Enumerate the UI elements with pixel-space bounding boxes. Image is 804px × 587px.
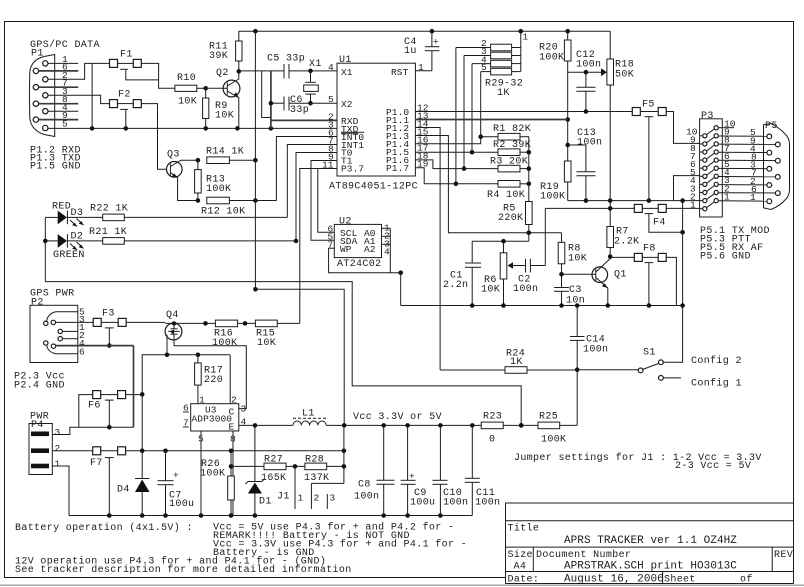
svg-text:1: 1 — [418, 62, 424, 73]
wire P2.4 GND row to column — [56, 346, 134, 428]
wires P3 to P5 — [718, 128, 775, 201]
svg-text:F8: F8 — [643, 244, 656, 255]
wire RST to C4 — [415, 70, 432, 72]
resistor R11 — [209, 31, 242, 73]
resistor R12 — [201, 197, 276, 217]
crystal X1 — [304, 59, 322, 105]
P2 signal legend — [14, 372, 65, 392]
wire Q2 collector to U1 RXD — [262, 71, 337, 128]
capacitor C14 — [570, 306, 608, 426]
svg-text:F4: F4 — [653, 218, 666, 229]
wire P4.3 row — [52, 425, 133, 435]
svg-text:C: C — [229, 407, 235, 418]
resistor R21 — [89, 227, 298, 244]
wire GND row y200 to P3 — [568, 198, 700, 203]
potentiometer R6 — [481, 241, 513, 305]
capacitor C7 — [158, 451, 195, 516]
svg-text:APRSTRAK.SCH print HO3013C: APRSTRAK.SCH print HO3013C — [564, 561, 737, 573]
capacitor C5 — [239, 54, 337, 79]
svg-text:of: of — [740, 574, 753, 586]
svg-text:A4: A4 — [514, 562, 527, 573]
resistor R13 — [195, 160, 232, 200]
wire P1.2 to R24 — [415, 128, 440, 371]
svg-text:R4 10K: R4 10K — [487, 190, 525, 201]
svg-text:100K: 100K — [541, 435, 566, 446]
svg-text:P4: P4 — [31, 420, 44, 431]
resistor R8 — [558, 233, 587, 277]
wire INT0 to R12 row — [276, 137, 337, 201]
svg-text:+: + — [433, 37, 439, 48]
svg-text:F2: F2 — [118, 90, 131, 101]
svg-text:P2: P2 — [31, 298, 44, 309]
svg-text:U1: U1 — [339, 55, 352, 66]
capacitor C12 — [576, 50, 601, 112]
wire P1.1 row — [415, 119, 567, 121]
svg-text:3: 3 — [330, 493, 336, 504]
svg-text:P1: P1 — [31, 49, 44, 60]
svg-text:See tracker description for mo: See tracker description for more detaile… — [15, 564, 352, 576]
svg-text:Config 1: Config 1 — [691, 378, 742, 390]
svg-text:Title: Title — [508, 523, 540, 535]
svg-text:2-3 Vcc = 5V: 2-3 Vcc = 5V — [675, 461, 751, 472]
svg-text:100u: 100u — [410, 498, 435, 509]
svg-text:1: 1 — [199, 395, 205, 406]
svg-text:100K: 100K — [539, 53, 564, 64]
wire bottom ground rail — [69, 513, 472, 518]
svg-text:Q4: Q4 — [166, 310, 179, 321]
wire feedback row R27 R28 — [231, 464, 346, 469]
diode D1 zener — [246, 425, 272, 515]
capacitor C1 — [443, 241, 481, 305]
capacitor C9 — [401, 425, 436, 515]
svg-text:F1: F1 — [120, 50, 133, 61]
wire T0 to D2 row — [296, 153, 337, 241]
wire F1 out to R10 — [141, 63, 175, 88]
wire P1.2 RXD to F1 — [48, 63, 110, 79]
P3 contacts — [700, 126, 719, 211]
wire F5 out to P3 — [666, 112, 699, 144]
svg-text:100n: 100n — [576, 60, 601, 71]
diode D4 — [117, 394, 150, 515]
svg-text:GREEN: GREEN — [53, 250, 85, 261]
capacitor C8 — [354, 425, 395, 515]
transistor Q1 — [562, 257, 627, 306]
ferrite F4 — [545, 204, 699, 234]
wire INT1 to D3 row — [287, 145, 337, 218]
wire P1 pin stubs — [39, 63, 79, 119]
svg-text:1: 1 — [690, 200, 696, 211]
svg-text:P1.5 GND: P1.5 GND — [30, 162, 81, 173]
svg-text:100K: 100K — [540, 192, 565, 203]
svg-text:100n: 100n — [443, 498, 468, 509]
ferrite F6 — [79, 391, 145, 428]
svg-text:1: 1 — [750, 192, 756, 203]
svg-text:0: 0 — [489, 435, 495, 446]
resistor network R29-32 — [456, 31, 529, 99]
svg-text:39K: 39K — [209, 51, 228, 62]
svg-text:R23: R23 — [483, 412, 502, 423]
svg-text:RED: RED — [52, 202, 71, 213]
svg-text:1: 1 — [55, 459, 61, 470]
wire Vcc output row — [246, 423, 481, 428]
note text jumper settings — [514, 452, 762, 472]
svg-text:100n: 100n — [354, 492, 379, 503]
svg-text:100u: 100u — [169, 499, 194, 510]
svg-text:ADP3000: ADP3000 — [192, 414, 233, 425]
resistor R16 — [203, 320, 255, 349]
svg-text:4: 4 — [384, 247, 390, 258]
connector P5 (DB9) — [764, 121, 790, 210]
svg-text:C8: C8 — [358, 480, 371, 491]
wire U2 WP and right pins to ground — [329, 228, 403, 305]
connector P4 PWR — [29, 412, 61, 475]
svg-text:P3: P3 — [701, 111, 714, 122]
capacitor C10 — [433, 425, 469, 515]
wire U3 pins 5 8 to ground rail — [199, 431, 233, 518]
connector P1 (DB9 GPS/PC DATA) — [29, 39, 99, 137]
svg-text:1u: 1u — [404, 46, 417, 57]
LED D2 green — [45, 232, 102, 262]
svg-text:2: 2 — [55, 443, 61, 454]
svg-text:Q2: Q2 — [216, 68, 229, 79]
wire gate row to R17/U3 pin2 — [142, 353, 230, 404]
switch S1 — [577, 306, 682, 381]
svg-text:Size: Size — [508, 549, 533, 561]
resistor R22 — [90, 204, 287, 221]
IC U3 ADP3000 — [191, 404, 239, 433]
resistor R1 — [481, 124, 531, 140]
P5 wire pin numbers — [750, 127, 757, 203]
resistor R19 — [540, 161, 571, 203]
P3 right pin numbers — [724, 119, 736, 203]
jumper J1 — [277, 425, 344, 509]
svg-text:F7: F7 — [90, 458, 103, 469]
svg-text:R12 10K: R12 10K — [201, 207, 245, 218]
svg-text:Q1: Q1 — [614, 270, 627, 281]
wire P4.1 to ground rail — [52, 466, 69, 516]
svg-text:2.2n: 2.2n — [443, 280, 468, 291]
note text battery operation — [15, 522, 467, 577]
ferrite F8 — [610, 244, 676, 306]
wire P1.0 row to C12/F5 — [415, 111, 632, 113]
svg-text:J1: J1 — [277, 492, 290, 503]
LED D3 red — [45, 202, 102, 227]
wire P1.7 to R4 — [415, 168, 498, 184]
svg-text:P5.6 GND: P5.6 GND — [700, 252, 751, 263]
svg-text:S1: S1 — [643, 348, 656, 359]
wire P3.7 riser to R15 — [300, 169, 337, 324]
capacitor C4 — [404, 31, 439, 70]
svg-text:100K: 100K — [212, 338, 237, 349]
resistor R9 — [203, 88, 234, 128]
resistor R4 — [487, 181, 531, 202]
svg-text:C3: C3 — [569, 285, 582, 296]
P5 signal legend — [700, 226, 770, 263]
resistor R20 — [539, 31, 571, 63]
wire ground column 683 — [682, 201, 684, 306]
resistor R27 — [261, 455, 286, 485]
ferrite F5 — [632, 100, 666, 201]
wire GND to P3 row5 — [674, 176, 700, 201]
svg-text:2: 2 — [231, 395, 237, 406]
svg-text:RST: RST — [391, 67, 409, 78]
svg-text:6: 6 — [183, 403, 189, 414]
svg-text:X1: X1 — [341, 67, 353, 78]
wire pack risers to R1-R4 — [454, 48, 483, 187]
svg-text:Q3: Q3 — [167, 150, 180, 161]
svg-text:100n: 100n — [577, 138, 602, 149]
resistor R17 — [195, 355, 223, 404]
svg-text:Config 2: Config 2 — [691, 355, 742, 367]
ferrite F1 — [110, 50, 159, 80]
svg-text:D1: D1 — [259, 497, 272, 508]
resistor R28 — [304, 455, 329, 485]
U1 right pin numbers — [417, 62, 429, 169]
svg-text:APRS TRACKER ver 1.1 OZ4HZ: APRS TRACKER ver 1.1 OZ4HZ — [564, 535, 737, 547]
potentiometer R18 — [601, 31, 634, 200]
P2 pin numbers — [79, 307, 85, 358]
svg-text:3: 3 — [241, 404, 247, 415]
svg-text:100n: 100n — [475, 498, 500, 509]
P1 signal legend — [30, 146, 81, 173]
svg-text:2: 2 — [314, 493, 320, 504]
capacitor C6 — [271, 95, 337, 116]
svg-text:F3: F3 — [102, 309, 115, 320]
svg-text:R25: R25 — [539, 412, 558, 423]
svg-text:REV: REV — [774, 550, 793, 561]
svg-text:4: 4 — [328, 62, 334, 73]
wire P1.4 to R1 — [415, 137, 480, 144]
svg-text:C5 33p: C5 33p — [267, 54, 305, 65]
capacitor C11 — [465, 425, 501, 515]
svg-text:R14 1K: R14 1K — [206, 147, 244, 158]
resistor R3 — [490, 157, 531, 172]
transistor Q4 (P-MOSFET) — [165, 310, 206, 357]
IC U2 AT24C02 — [334, 217, 381, 271]
svg-text:Sheet: Sheet — [664, 574, 696, 586]
wire GND row P1.5 to U1 TXD — [48, 126, 337, 131]
svg-text:5: 5 — [328, 94, 334, 105]
resistor R14 — [206, 147, 258, 164]
svg-text:X2: X2 — [341, 99, 353, 110]
svg-text:1: 1 — [298, 493, 304, 504]
svg-text:3: 3 — [55, 427, 61, 438]
capacitor C3 — [554, 274, 585, 306]
U2 pin numbers — [328, 223, 391, 258]
resistor R7 — [607, 201, 640, 259]
resistor R10 — [175, 73, 208, 108]
svg-text:6: 6 — [79, 347, 85, 358]
wire U3 pin4 to Vcc row — [239, 424, 246, 426]
P3 left pin numbers — [686, 127, 698, 211]
svg-text:P3.7: P3.7 — [341, 164, 364, 175]
wire R20/C12/R18 wiper net — [565, 61, 602, 161]
svg-text:F5: F5 — [642, 100, 655, 111]
wire P1.6 to R3 — [415, 160, 498, 169]
wire F2 out to Q3 base — [141, 104, 170, 170]
wire C1/R6 row — [472, 239, 529, 244]
svg-text:August 16, 2006: August 16, 2006 — [564, 574, 664, 586]
resistor R15 — [255, 320, 299, 349]
svg-text:100n: 100n — [513, 284, 538, 295]
wire P4.2 row through F7 — [52, 450, 92, 452]
svg-text:165K: 165K — [261, 473, 286, 484]
wire Q4 drain to U3 pin3 — [174, 346, 246, 409]
svg-text:220: 220 — [204, 375, 223, 386]
svg-text:137K: 137K — [304, 473, 329, 484]
svg-text:P2.4 GND: P2.4 GND — [14, 381, 65, 392]
svg-text:E: E — [229, 422, 235, 433]
wire LED anode column to Vcc — [43, 217, 524, 427]
svg-text:10K: 10K — [481, 285, 500, 296]
svg-text:100K: 100K — [206, 184, 231, 195]
svg-text:P1.7: P1.7 — [386, 163, 409, 174]
svg-text:1: 1 — [523, 32, 529, 43]
resistor R2 — [493, 140, 531, 156]
resistor R24 — [440, 349, 577, 374]
transistor Q3 — [167, 150, 201, 203]
svg-text:Date:: Date: — [508, 575, 540, 586]
svg-text:220K: 220K — [498, 213, 523, 224]
svg-text:WP: WP — [340, 244, 352, 255]
title block — [506, 503, 794, 586]
svg-text:Vcc 3.3V or 5V: Vcc 3.3V or 5V — [353, 412, 442, 423]
ferrite F3 — [93, 309, 165, 348]
svg-text:D4: D4 — [117, 485, 130, 496]
wire P1.5 to R2 — [415, 151, 498, 153]
svg-text:R21 1K: R21 1K — [89, 227, 127, 238]
svg-text:U2: U2 — [339, 217, 352, 228]
ferrite F7 — [90, 447, 346, 516]
wire P1.3 riser and row to R5/R8 — [415, 136, 561, 236]
resistor R5 — [498, 137, 532, 242]
svg-text:AT89C4051-12PC: AT89C4051-12PC — [329, 182, 418, 193]
svg-text:10K: 10K — [257, 338, 276, 349]
svg-text:A2: A2 — [364, 244, 376, 255]
svg-text:10K: 10K — [178, 97, 197, 108]
capacitor C13 — [568, 128, 603, 201]
svg-text:2.2K: 2.2K — [614, 237, 639, 248]
resistor R23 — [481, 412, 538, 446]
capacitor C2 — [513, 208, 545, 295]
ferrite F2 — [110, 90, 142, 129]
wire vertical at 92 — [91, 63, 93, 128]
svg-text:R10: R10 — [177, 73, 196, 84]
svg-text:10K: 10K — [215, 111, 234, 122]
wire P1.3 TXD to F2 — [48, 95, 110, 103]
connector P2 GPS PWR — [30, 289, 93, 363]
svg-text:33p: 33p — [290, 105, 309, 116]
U1 left pin numbers — [322, 62, 334, 170]
U3 pin numbers — [183, 395, 247, 445]
wire ground rail y305 — [401, 303, 685, 308]
svg-text:+: + — [173, 470, 179, 481]
connector P3 — [700, 111, 723, 217]
IC U1 AT89C4051 — [329, 55, 418, 193]
transistor Q2 — [208, 68, 240, 128]
svg-text:100n: 100n — [583, 345, 608, 356]
wire Vcc column 255 — [253, 31, 344, 425]
svg-text:1K: 1K — [497, 88, 510, 99]
svg-text:X1: X1 — [309, 59, 322, 70]
svg-text:10K: 10K — [568, 254, 587, 265]
svg-text:50K: 50K — [615, 70, 634, 81]
svg-text:F6: F6 — [88, 401, 101, 412]
svg-text:AT24C02: AT24C02 — [337, 259, 381, 270]
inductor L1 — [293, 409, 326, 426]
wire top rail Vcc — [239, 29, 610, 34]
wire T1 to U2 SDA — [311, 161, 337, 241]
svg-text:100K: 100K — [200, 469, 225, 480]
svg-text:R22 1K: R22 1K — [90, 204, 128, 215]
wire P3.7 to U2 SCL — [318, 169, 337, 233]
svg-text:Document Number: Document Number — [536, 549, 631, 561]
svg-text:Battery operation (4x1.5V) :: Battery operation (4x1.5V) : — [15, 522, 193, 534]
svg-text:7: 7 — [183, 418, 189, 429]
P1 pin numbers — [62, 54, 68, 130]
resistor R26 — [200, 451, 234, 516]
resistor R25 — [538, 412, 577, 446]
